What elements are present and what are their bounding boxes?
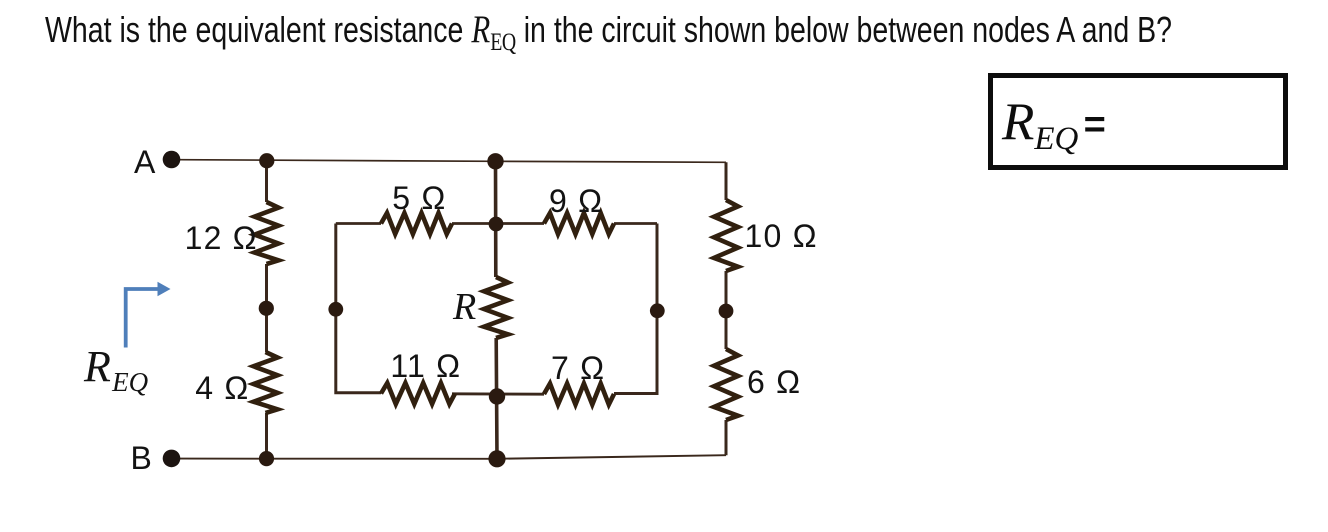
label 12 ohm value <box>185 220 258 257</box>
resistor 9 ohm zigzag <box>544 213 614 234</box>
label B (node name) <box>131 440 152 477</box>
junction middle of right branch <box>719 304 734 319</box>
junction middle of inner left vertical <box>328 302 343 317</box>
resistor 12 ohm zigzag <box>255 202 279 264</box>
resistor 10 ohm zigzag <box>714 200 738 271</box>
junction middle of inner right vertical <box>650 303 665 318</box>
label 4 ohm value <box>195 370 249 407</box>
label 6 ohm value <box>747 364 801 401</box>
label A (node name) <box>134 144 155 181</box>
junction bottom rail / middle branch <box>488 450 505 467</box>
node B terminal dot <box>163 450 181 468</box>
wire inner loop left vertical <box>336 224 381 393</box>
answer box <box>988 73 1288 170</box>
label REQ (left, math style) <box>84 341 148 398</box>
REQ direction arrow (blue, bent up-then-right) <box>126 289 160 348</box>
label 9 ohm value <box>549 183 603 220</box>
title question text <box>45 10 1172 55</box>
junction top rail / middle branch <box>487 153 503 169</box>
junction bottom of left branch <box>259 451 274 466</box>
wire inner top rail <box>336 222 657 225</box>
label 5 ohm value <box>392 180 446 217</box>
label REQ = (inside answer box) <box>1002 96 1106 156</box>
wire inner bottom rail <box>452 392 544 395</box>
wire bottom rail B to bottom-right corner <box>180 455 726 459</box>
junction top of left branch <box>259 153 274 168</box>
label R (middle resistor name, italic serif) <box>453 285 477 329</box>
node A terminal dot <box>163 151 181 169</box>
wire middle vertical branch (through R) <box>496 161 498 459</box>
resistor 5 ohm zigzag <box>381 213 452 234</box>
junction inner top rail / middle branch <box>489 217 504 232</box>
wire top rail A to top-right corner <box>180 160 726 163</box>
label 10 ohm value <box>745 218 818 255</box>
resistor 7 ohm zigzag <box>544 384 614 405</box>
wire right branch vertical (10 ohm / 6 ohm branch) <box>725 162 728 455</box>
wire left branch vertical (12 ohm / 4 ohm branch) <box>265 161 268 459</box>
resistor 11 ohm zigzag <box>381 383 455 404</box>
junction inner bottom rail / middle branch <box>489 388 505 404</box>
resistor 4 ohm zigzag <box>254 352 278 413</box>
wire inner loop right vertical <box>614 224 657 394</box>
resistor 6 ohm zigzag <box>714 349 738 420</box>
label 11 ohm value <box>390 348 461 385</box>
resistor R zigzag <box>484 277 508 338</box>
label 7 ohm value <box>551 350 605 387</box>
junction middle of left branch <box>259 301 274 316</box>
